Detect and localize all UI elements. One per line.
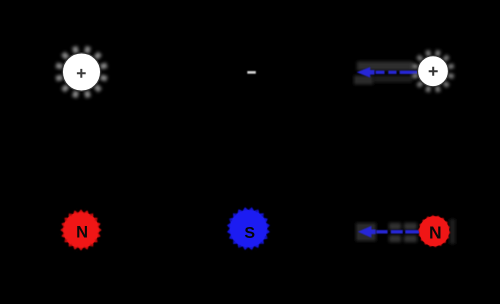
north pole P3 body xyxy=(419,216,449,246)
svg-text:N: N xyxy=(76,224,88,242)
south pole P2 ray spikes xyxy=(224,205,272,253)
north pole P1 ray spikes xyxy=(59,208,103,252)
positive charge Q3 body xyxy=(418,56,449,87)
force arrow F1 on Q3 (dashed blue, pointing left) xyxy=(357,67,418,78)
jpeg noise right of P3 xyxy=(450,219,456,244)
positive charge Q1 rays xyxy=(56,47,107,98)
plus sign of Q1 xyxy=(77,69,86,78)
south pole P2 burst xyxy=(227,207,270,250)
north pole P1 body xyxy=(63,212,99,248)
plus sign of Q3 xyxy=(429,67,438,76)
north pole P1 burst xyxy=(60,209,101,250)
south pole P2 body xyxy=(230,210,267,247)
svg-text:S: S xyxy=(244,225,255,242)
positive charge Q3 rays xyxy=(412,51,453,92)
force arrow F2 on P3 (dashed blue, pointing left) xyxy=(358,226,420,238)
positive charge Q1 body xyxy=(62,53,100,91)
svg-text:N: N xyxy=(429,223,442,243)
jpeg noise around force arrow F1 xyxy=(354,62,413,85)
north pole P3 burst xyxy=(418,215,450,247)
jpeg noise around force arrow F2 xyxy=(356,223,417,242)
negative charge Q2 minus sign xyxy=(247,71,256,74)
